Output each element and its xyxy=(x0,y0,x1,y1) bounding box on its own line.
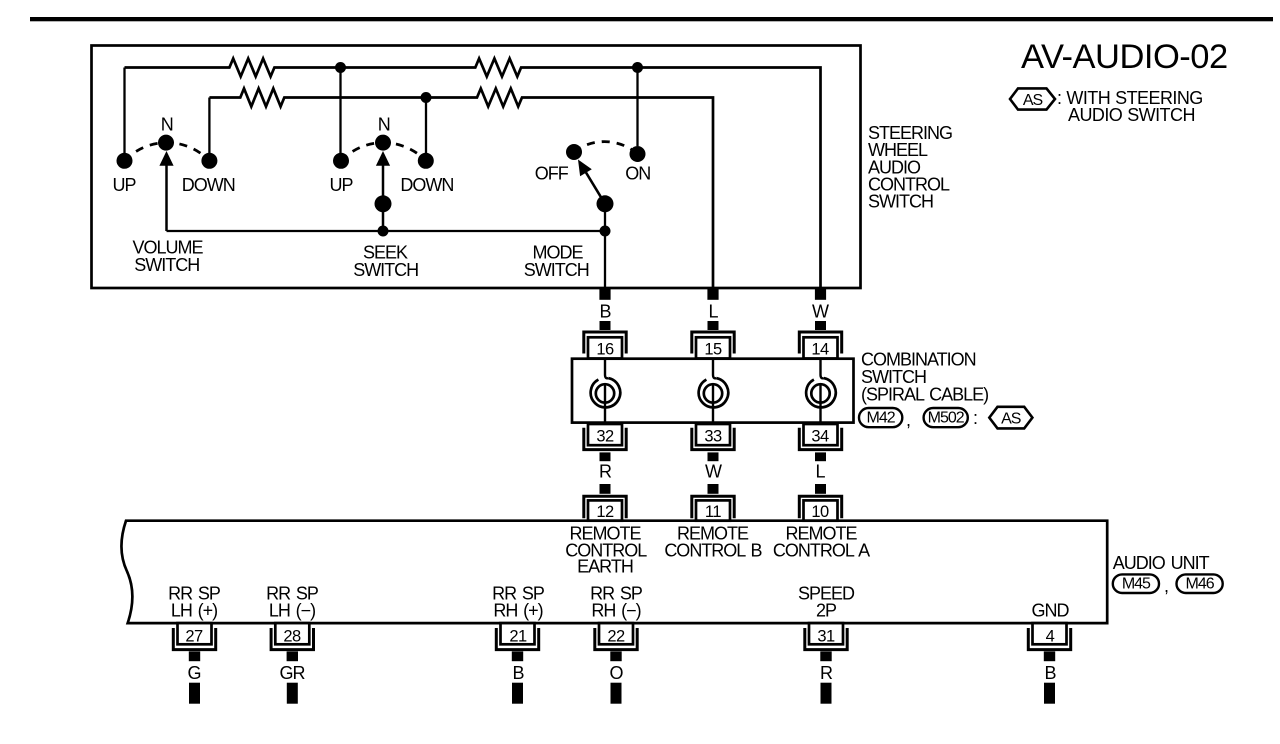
connector pin 22 xyxy=(599,623,633,644)
mode switch contact OFF xyxy=(566,144,582,160)
volume switch contact DOWN xyxy=(201,153,217,169)
svg-text:M45: M45 xyxy=(1122,576,1151,593)
svg-text:R: R xyxy=(820,663,833,683)
svg-text:,: , xyxy=(906,410,910,430)
wire row 2 with resistor R2 and resistor R4, drops to L output xyxy=(209,89,713,300)
spiral cable symbol (x=605.0) xyxy=(605,359,608,379)
mode switch dashed arc xyxy=(574,142,638,154)
wire W terminal square at switch box exit (x=820.5) xyxy=(815,289,826,300)
svg-text:SWITCH: SWITCH xyxy=(353,260,418,280)
svg-text:(SPIRAL CABLE): (SPIRAL CABLE) xyxy=(861,384,988,404)
svg-text:22: 22 xyxy=(607,627,625,645)
combination switch (spiral cable) box xyxy=(572,359,854,423)
node on row1 at mode ON xyxy=(632,62,643,73)
svg-text:2P: 2P xyxy=(816,601,837,621)
svg-text:B: B xyxy=(599,301,611,321)
svg-text:CONTROL A: CONTROL A xyxy=(773,540,870,560)
svg-text:N: N xyxy=(161,115,173,135)
svg-text:M46: M46 xyxy=(1186,576,1215,593)
svg-text:GND: GND xyxy=(1032,601,1070,621)
wire W stub above connector 14 xyxy=(815,321,826,330)
connector 31 bracket xyxy=(805,628,847,650)
svg-text:UP: UP xyxy=(112,175,136,195)
connector code M502 oval xyxy=(924,408,968,427)
connector pin 34 xyxy=(804,424,838,445)
svg-text:LH (−): LH (−) xyxy=(269,601,315,621)
svg-text:14: 14 xyxy=(811,341,829,359)
connector 4 bracket xyxy=(1028,628,1070,650)
wire L stub below connector 34 xyxy=(815,452,826,461)
connector pin 12 xyxy=(588,500,622,520)
wire W stub below connector 33 xyxy=(708,452,719,461)
svg-text:DOWN: DOWN xyxy=(400,175,453,195)
wire G continuation stub xyxy=(189,683,200,704)
wire GR stub below connector 28 xyxy=(287,651,298,661)
svg-text:M42: M42 xyxy=(867,410,896,427)
svg-text:16: 16 xyxy=(596,341,614,359)
mode switch pivot dot xyxy=(597,195,614,212)
seek switch contact N xyxy=(375,135,391,151)
wire L stub above connector 10 xyxy=(815,484,826,494)
svg-text:DOWN: DOWN xyxy=(182,175,235,195)
seek switch dashed arc xyxy=(341,143,426,161)
wire R stub below connector 31 xyxy=(820,651,831,661)
wire O stub below connector 22 xyxy=(610,651,621,661)
connector 12 bracket xyxy=(584,496,626,518)
svg-text:GR: GR xyxy=(280,663,306,683)
svg-text:10: 10 xyxy=(811,503,829,521)
svg-text:AUDIO UNIT: AUDIO UNIT xyxy=(1113,553,1210,573)
svg-text:L: L xyxy=(708,301,718,321)
svg-text:B: B xyxy=(1044,663,1056,683)
wire L terminal square at switch box exit (x=713.0) xyxy=(707,289,718,300)
connector pin 33 xyxy=(696,424,730,445)
mode switch contact ON xyxy=(630,146,646,162)
svg-text:SWITCH: SWITCH xyxy=(524,260,589,280)
steering wheel audio control switch box xyxy=(92,46,861,289)
svg-text:31: 31 xyxy=(817,627,835,645)
wire row1 to mode ON xyxy=(636,68,638,147)
svg-text:4: 4 xyxy=(1046,627,1055,645)
svg-text:ON: ON xyxy=(625,164,650,184)
seek switch contact DOWN xyxy=(418,153,434,169)
svg-text:AS: AS xyxy=(1001,410,1021,427)
svg-text:LH (+): LH (+) xyxy=(171,601,217,621)
mode output wire (B) xyxy=(604,204,606,299)
wire R continuation stub xyxy=(821,683,832,704)
svg-text:AS: AS xyxy=(1023,92,1043,109)
connector 27 bracket xyxy=(173,628,215,650)
node on row2 at seek DOWN xyxy=(421,92,432,103)
connector pin 27 xyxy=(178,623,212,644)
svg-text:32: 32 xyxy=(596,428,614,446)
volume switch wiper arrow xyxy=(165,164,168,231)
volume switch contact N xyxy=(158,135,174,151)
wire B continuation stub xyxy=(1044,683,1055,704)
wire B stub above connector 16 xyxy=(600,321,611,330)
svg-text:SWITCH: SWITCH xyxy=(868,192,933,212)
svg-text:G: G xyxy=(187,663,200,683)
svg-text:B: B xyxy=(512,663,524,683)
connector pin 32 xyxy=(588,424,622,445)
svg-text:27: 27 xyxy=(185,627,203,645)
wire B stub below connector 4 xyxy=(1044,651,1055,661)
AS flag symbol (legend) xyxy=(1010,88,1055,109)
volume switch dashed arc xyxy=(125,143,210,161)
AS flag symbol xyxy=(989,407,1032,429)
wire G stub below connector 27 xyxy=(189,651,200,661)
wire row2 to seek DOWN xyxy=(425,98,427,154)
volume switch common wire xyxy=(167,230,606,232)
wire row1 to seek UP xyxy=(339,68,341,154)
spiral cable symbol (x=713.0) xyxy=(713,359,716,379)
svg-text:W: W xyxy=(812,301,829,321)
node mode common junction xyxy=(600,226,611,237)
svg-text:AV-AUDIO-02: AV-AUDIO-02 xyxy=(1021,38,1228,76)
svg-text:UP: UP xyxy=(329,175,353,195)
svg-text:21: 21 xyxy=(509,627,527,645)
wire row 1 with resistor R1 and resistor R3, drops to W output xyxy=(125,59,821,300)
connector 15 bracket xyxy=(692,332,734,354)
svg-text:28: 28 xyxy=(283,627,301,645)
svg-text:34: 34 xyxy=(811,428,829,446)
connector 16 bracket xyxy=(584,332,626,354)
connector 14 bracket xyxy=(799,332,841,354)
seek switch wiper pivot dot xyxy=(375,195,392,212)
seek switch wiper arrow xyxy=(382,164,385,231)
connector 21 bracket xyxy=(496,628,538,650)
connector pin 28 xyxy=(275,623,309,644)
svg-text:O: O xyxy=(609,663,623,683)
svg-text:11: 11 xyxy=(705,503,721,521)
connector 32 bracket xyxy=(584,428,626,450)
connector pin 16 xyxy=(588,337,622,358)
seek switch contact UP xyxy=(333,153,349,169)
connector pin 31 xyxy=(809,623,843,644)
audio unit box with torn left edge xyxy=(121,521,1107,623)
connector pin 4 xyxy=(1033,623,1067,644)
svg-text:N: N xyxy=(378,115,390,135)
svg-text:RH (+): RH (+) xyxy=(493,601,542,621)
svg-text:33: 33 xyxy=(704,428,722,446)
connector 33 bracket xyxy=(692,428,734,450)
connector pin 10 xyxy=(804,500,838,520)
connector pin 14 xyxy=(804,337,838,358)
connector pin 11 xyxy=(696,500,730,520)
wire B terminal square at switch box exit (x=605.0) xyxy=(599,289,610,300)
wire B continuation stub xyxy=(512,683,523,704)
svg-text:W: W xyxy=(705,462,722,482)
svg-text:RH (−): RH (−) xyxy=(591,601,640,621)
wire GR continuation stub xyxy=(287,683,298,704)
wire B stub below connector 21 xyxy=(512,651,523,661)
wire O continuation stub xyxy=(611,683,622,704)
connector pin 15 xyxy=(696,337,730,358)
connector 11 bracket xyxy=(692,496,734,518)
wire W stub above connector 11 xyxy=(708,484,719,494)
wire R stub below connector 32 xyxy=(600,452,611,461)
volume switch contact UP xyxy=(117,153,133,169)
svg-text:,: , xyxy=(1164,576,1168,596)
svg-text:OFF: OFF xyxy=(535,164,569,184)
connector pin 21 xyxy=(501,623,535,644)
spiral cable symbol (x=820.5) xyxy=(821,359,824,379)
connector code M45 oval xyxy=(1113,574,1159,593)
connector 34 bracket xyxy=(799,428,841,450)
wire L stub above connector 15 xyxy=(708,321,719,330)
wire row1 to volume UP xyxy=(123,68,125,154)
connector 28 bracket xyxy=(271,628,313,650)
mode switch wiper arm with arrow xyxy=(586,173,605,204)
svg-text:EARTH: EARTH xyxy=(577,557,633,577)
svg-text:CONTROL B: CONTROL B xyxy=(664,540,762,560)
connector 22 bracket xyxy=(595,628,637,650)
svg-text:AUDIO SWITCH: AUDIO SWITCH xyxy=(1068,105,1195,125)
connector code M42 oval xyxy=(859,408,902,427)
connector 10 bracket xyxy=(799,496,841,518)
wire row2 to volume DOWN xyxy=(208,98,210,154)
wire R stub above connector 12 xyxy=(600,484,611,494)
svg-text:SWITCH: SWITCH xyxy=(134,255,199,275)
node seek common junction xyxy=(378,226,389,237)
svg-text:M502: M502 xyxy=(928,410,965,427)
svg-text:15: 15 xyxy=(704,341,722,359)
node on row1 at seek UP xyxy=(335,62,346,73)
svg-text:12: 12 xyxy=(596,503,614,521)
svg-text:R: R xyxy=(599,462,612,482)
svg-text:L: L xyxy=(815,462,825,482)
svg-text::: : xyxy=(973,408,977,428)
connector code M46 oval xyxy=(1177,574,1223,593)
top border rule xyxy=(30,17,1273,21)
